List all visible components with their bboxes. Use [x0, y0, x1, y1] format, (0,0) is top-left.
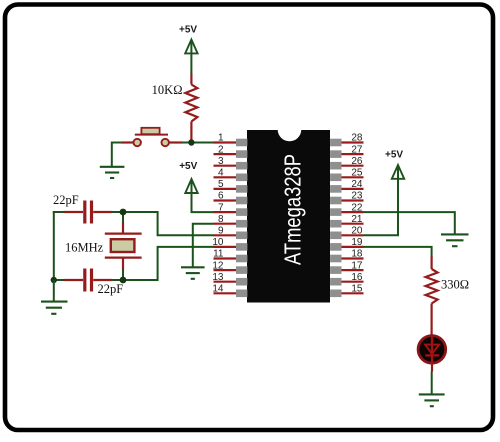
svg-text:9: 9: [218, 226, 224, 237]
wire +5V stem to R1: [190, 41, 192, 73]
svg-text:26: 26: [351, 156, 363, 167]
svg-text:3: 3: [218, 156, 224, 167]
IC pin 6 pad: [236, 197, 247, 205]
crystal X1 16MHz: [105, 222, 142, 271]
IC pin 15 pad: [330, 290, 341, 298]
IC pin 12 stub: [214, 269, 237, 271]
IC pin 17 stub: [341, 269, 364, 271]
IC pin 18 pad: [330, 255, 341, 263]
IC pin 9 stub: [214, 234, 237, 236]
node bottom cap junction: [120, 277, 127, 284]
svg-text:24: 24: [351, 179, 363, 190]
IC pin 11 stub: [214, 257, 237, 259]
wire bottom cap to pin10: [112, 247, 214, 280]
svg-text:22pF: 22pF: [53, 193, 79, 207]
IC pin 24 stub: [341, 188, 364, 190]
IC pin 1 pad: [236, 139, 247, 147]
wire pin22 to ground: [364, 212, 455, 234]
ground right: [441, 234, 469, 246]
IC pin 10 pad: [236, 243, 247, 251]
IC pin 25 pad: [330, 174, 341, 182]
svg-text:1: 1: [218, 133, 224, 144]
IC pin 26 stub: [341, 165, 364, 167]
svg-text:15: 15: [351, 284, 363, 295]
IC pin 15 stub: [341, 292, 364, 294]
IC pin 8 pad: [236, 220, 247, 228]
IC pin 27 stub: [341, 153, 364, 155]
IC pin 16 stub: [341, 281, 364, 283]
wire pin19 to R2: [364, 247, 432, 257]
svg-text:22: 22: [351, 202, 363, 213]
wire LED to ground: [431, 372, 433, 395]
svg-text:19: 19: [351, 237, 363, 248]
svg-text:13: 13: [212, 272, 224, 283]
IC pin 19 pad: [330, 243, 341, 251]
IC pin 2 stub: [214, 153, 237, 155]
power +5V arrow top: [185, 40, 197, 54]
wire to C2 left: [53, 279, 65, 281]
LED D1: [418, 336, 446, 372]
IC pin 28 stub: [341, 141, 364, 143]
ground crystal: [41, 302, 68, 314]
IC pin 23 stub: [341, 199, 364, 201]
push button SW1: [122, 128, 183, 146]
node top cap junction: [120, 209, 127, 216]
IC pin 13 pad: [236, 278, 247, 286]
IC pin 7 stub: [214, 211, 237, 213]
IC pin 26 pad: [330, 162, 341, 170]
IC pin 4 pad: [236, 174, 247, 182]
svg-text:21: 21: [351, 214, 363, 225]
svg-text:4: 4: [218, 168, 224, 179]
IC pin 3 pad: [236, 162, 247, 170]
IC pin 10 stub: [214, 246, 237, 248]
IC pin 24 pad: [330, 185, 341, 193]
IC pin 22 stub: [341, 211, 364, 213]
svg-text:5: 5: [218, 179, 224, 190]
IC pin 1 stub: [214, 141, 237, 143]
IC pin 11 pad: [236, 255, 247, 263]
junction node: [188, 139, 194, 145]
power +5V arrow mid: [185, 179, 197, 193]
IC pin 19 stub: [341, 246, 364, 248]
IC pin 12 pad: [236, 266, 247, 274]
wire top cap to pin9: [112, 212, 214, 235]
svg-text:+5V: +5V: [179, 25, 197, 36]
svg-text:12: 12: [212, 260, 224, 271]
IC pin 17 pad: [330, 266, 341, 274]
ground pin8: [181, 267, 205, 279]
wire pin8 to ground: [193, 224, 214, 267]
svg-text:25: 25: [351, 168, 363, 179]
svg-text:23: 23: [351, 191, 363, 202]
IC notch: [278, 118, 302, 142]
svg-text:17: 17: [351, 260, 363, 271]
wire button/R1 to pin1: [182, 142, 214, 144]
svg-text:10: 10: [212, 237, 224, 248]
wire pin20 to +5V: [364, 167, 399, 236]
node left junction: [51, 277, 57, 283]
IC pin 18 stub: [341, 257, 364, 259]
wire to C1 left: [53, 211, 65, 213]
IC pin 21 pad: [330, 220, 341, 228]
wire +5V to pin7: [192, 181, 215, 213]
resistor R2 330: [426, 256, 438, 337]
svg-text:330Ω: 330Ω: [441, 277, 469, 291]
svg-text:16: 16: [351, 272, 363, 283]
IC pin 9 pad: [236, 232, 247, 240]
svg-text:8: 8: [218, 214, 224, 225]
ground under button: [100, 167, 125, 178]
IC pin 23 pad: [330, 197, 341, 205]
IC pin 4 stub: [214, 176, 237, 178]
svg-text:+5V: +5V: [179, 161, 197, 172]
capacitor C2 22pF bottom: [64, 269, 113, 292]
IC pin 21 stub: [341, 223, 364, 225]
capacitor C1 22pF top: [64, 201, 113, 224]
wire crystal vertical stubs green parts: [122, 212, 124, 223]
svg-text:10KΩ: 10KΩ: [152, 83, 183, 97]
svg-text:16MHz: 16MHz: [65, 240, 104, 254]
IC pin 22 pad: [330, 208, 341, 216]
power +5V arrow right: [392, 165, 404, 179]
svg-text:28: 28: [351, 133, 363, 144]
IC pin 16 pad: [330, 278, 341, 286]
IC pin 5 pad: [236, 185, 247, 193]
IC pin 28 pad: [330, 139, 341, 147]
svg-text:2: 2: [218, 144, 224, 155]
svg-text:22pF: 22pF: [98, 282, 124, 296]
svg-text:+5V: +5V: [385, 150, 403, 161]
ground LED: [419, 394, 445, 406]
IC pin 27 pad: [330, 150, 341, 158]
wire button left to ground: [112, 143, 122, 167]
IC pin 7 pad: [236, 208, 247, 216]
IC pin 6 stub: [214, 199, 237, 201]
IC pin 3 stub: [214, 165, 237, 167]
svg-text:ATmega328P: ATmega328P: [280, 154, 306, 265]
wire crystal left vertical: [53, 211, 55, 281]
wire left junction to ground: [53, 280, 55, 301]
IC pin 8 stub: [214, 223, 237, 225]
IC pin 20 pad: [330, 232, 341, 240]
IC U1 ATmega328P body: [247, 130, 330, 303]
IC pin 25 stub: [341, 176, 364, 178]
IC pin 2 pad: [236, 150, 247, 158]
svg-text:27: 27: [351, 144, 363, 155]
svg-text:20: 20: [351, 226, 363, 237]
IC pin 20 stub: [341, 234, 364, 236]
svg-text:7: 7: [218, 202, 224, 213]
IC pin 13 stub: [214, 281, 237, 283]
svg-text:14: 14: [212, 284, 224, 295]
resistor R1 10K: [185, 73, 197, 143]
IC pin 14 pad: [236, 290, 247, 298]
IC pin 5 stub: [214, 188, 237, 190]
svg-text:11: 11: [213, 249, 224, 260]
IC pin 14 stub: [214, 292, 237, 294]
svg-text:18: 18: [351, 249, 363, 260]
svg-text:6: 6: [218, 191, 224, 202]
